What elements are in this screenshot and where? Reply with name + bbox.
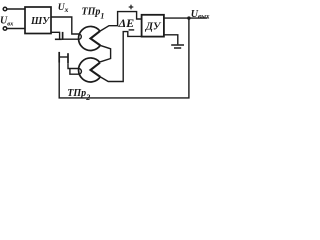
wire heater 1 xyxy=(62,38,79,40)
wire upper input xyxy=(7,8,25,10)
svg-text:ДУ: ДУ xyxy=(145,21,162,32)
thermal converter TPr1 xyxy=(79,26,101,50)
svg-text:ΔЕ: ΔЕ xyxy=(118,16,135,30)
wire crossbar lower xyxy=(60,56,68,58)
svg-text:ШУ: ШУ xyxy=(30,16,50,27)
wire ground branch DU xyxy=(164,35,178,45)
heater terminal bar upper xyxy=(62,32,64,40)
heater bump TPr2 xyxy=(79,69,82,75)
ground bar T1 xyxy=(55,38,62,40)
heater terminal bars lower xyxy=(58,52,60,63)
input terminal upper xyxy=(3,7,7,11)
wire heater 2 lower lead xyxy=(70,69,79,75)
wire output xyxy=(164,17,208,19)
wire TC2 minus lead xyxy=(100,32,141,82)
heater bump TPr1 xyxy=(79,34,82,39)
ground xyxy=(171,44,184,46)
plus sign xyxy=(129,5,134,10)
input terminal lower xyxy=(3,27,7,31)
amplifier block U1 (ШУ) xyxy=(25,7,51,34)
svg-text:Ux: Ux xyxy=(58,3,69,14)
wire Ux output xyxy=(51,17,79,34)
junction dot xyxy=(187,16,190,19)
wire TC1 plus lead xyxy=(100,12,142,32)
wire feedback xyxy=(59,18,189,98)
wire ground branch xyxy=(51,32,60,38)
wire lower input xyxy=(7,28,25,30)
minus sign xyxy=(129,29,135,31)
wire TC1 to TC2 series link xyxy=(100,45,111,62)
wire heater 2 xyxy=(68,63,79,68)
thermal converter TPr2 xyxy=(79,58,101,82)
amplifier block U2 (ДУ) xyxy=(142,15,164,37)
